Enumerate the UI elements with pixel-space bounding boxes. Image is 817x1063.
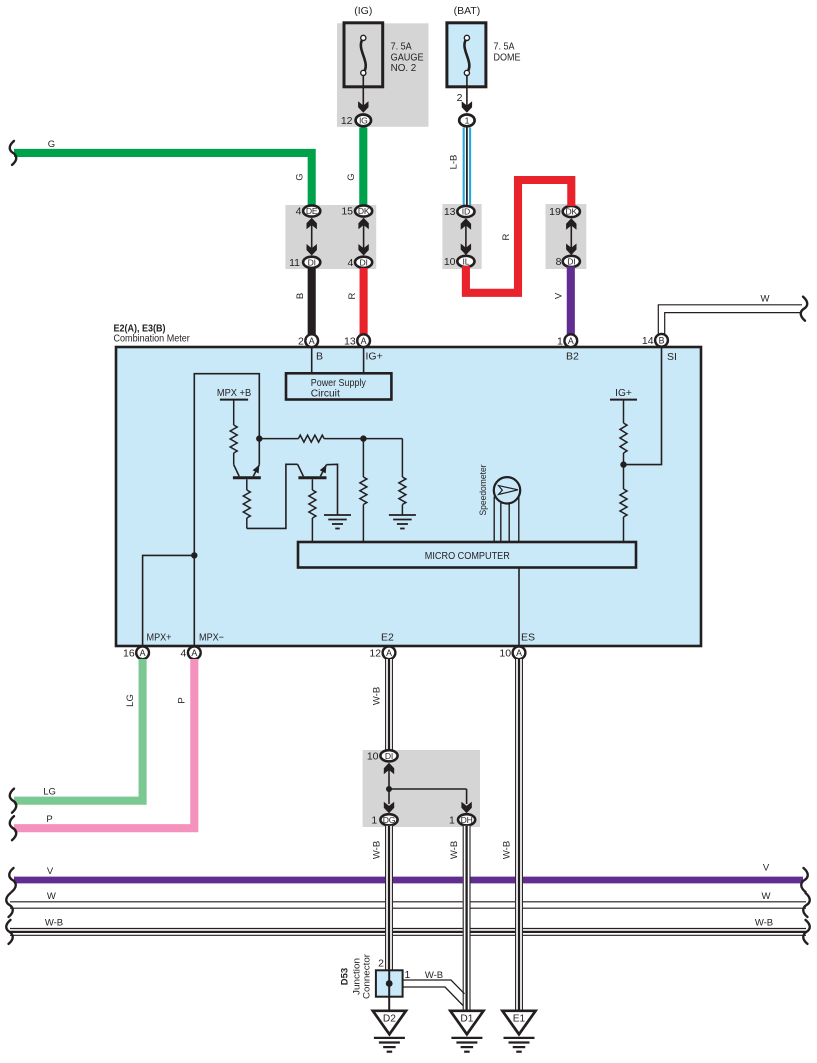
svg-text:DH: DH [461, 815, 473, 825]
svg-text:DI: DI [308, 257, 316, 267]
wire MPX- from pin 4 up to node [194, 374, 259, 646]
meter pin 2 A [305, 334, 318, 347]
svg-text:NO. 2: NO. 2 [391, 63, 417, 74]
junction dot MPX [191, 552, 197, 558]
wire V (violet) DI to meter pin 1 [567, 267, 575, 337]
meter pin 16 A MPX+ [136, 646, 149, 659]
node junction dot IG+ [620, 461, 626, 467]
svg-text:GAUGE: GAUGE [391, 52, 424, 63]
meter pin 12 A E2 [383, 646, 396, 659]
svg-text:15: 15 [341, 206, 353, 218]
junction dot DI-DG-DH [386, 786, 392, 792]
wire ES from micro computer to pin 10 [518, 568, 520, 647]
svg-text:ID: ID [462, 207, 470, 217]
ground (R5) [389, 514, 416, 516]
svg-text:1: 1 [405, 969, 411, 981]
connector 4 DI [355, 257, 372, 268]
connector 19 DK [563, 206, 580, 217]
svg-text:W-B: W-B [755, 918, 773, 929]
svg-text:D1: D1 [460, 1014, 473, 1025]
svg-text:V: V [47, 866, 54, 877]
power supply circuit box [286, 373, 391, 399]
svg-text:7. 5A: 7. 5A [391, 42, 412, 53]
gray background block around connectors DK/DI (right) [546, 204, 587, 269]
wire G (green) from fuse IG to DK [359, 128, 367, 206]
svg-text:DI: DI [567, 257, 575, 267]
svg-text:A: A [568, 336, 574, 346]
svg-text:B: B [316, 351, 323, 363]
wire pin2 to power supply circuit [311, 347, 313, 373]
speedometer gauge [494, 477, 520, 503]
double arrow DK-DI [363, 221, 365, 253]
speedometer wires to micro computer [493, 497, 495, 543]
svg-text:Circuit: Circuit [311, 388, 340, 399]
svg-text:IG+: IG+ [615, 388, 632, 399]
svg-text:10: 10 [444, 256, 456, 268]
wire LG (light green) from pin 16 [14, 659, 143, 801]
bus wire W (white) [10, 901, 806, 903]
wire fuse BAT to connector 1, pin 2 [466, 76, 468, 109]
svg-text:1: 1 [557, 335, 563, 347]
double arrow DE-DI [311, 221, 313, 253]
meter pin 10 A ES [513, 646, 526, 659]
fuse (BAT) 7.5A DOME [447, 23, 486, 87]
svg-text:MICRO COMPUTER: MICRO COMPUTER [425, 551, 510, 562]
svg-text:MPX +B: MPX +B [217, 388, 252, 399]
svg-text:Power Supply: Power Supply [311, 378, 367, 389]
svg-text:IG: IG [359, 116, 368, 126]
resistor R5 to ground [363, 438, 402, 440]
svg-text:A: A [140, 648, 146, 658]
wire R (red) DI to meter pin 13 [360, 268, 368, 336]
svg-text:DOME: DOME [494, 52, 521, 63]
meter pin 13 A [357, 334, 370, 347]
svg-text:14: 14 [642, 335, 654, 347]
connector 10 IL [457, 256, 474, 267]
wire W (white) from right to meter pin 14 [658, 305, 802, 341]
svg-text:A: A [309, 336, 315, 346]
svg-text:A: A [516, 648, 522, 658]
wire W-B from D53 pin 1 to D1 wire [403, 980, 465, 994]
wire W-B from DH to ground D1 [463, 826, 471, 1010]
svg-text:W-B: W-B [372, 841, 383, 859]
connector 1 DH [458, 814, 475, 825]
connector 1 DG [380, 814, 397, 825]
svg-text:A: A [361, 336, 367, 346]
svg-text:13: 13 [444, 206, 456, 218]
svg-text:11: 11 [289, 257, 300, 269]
resistor R6 under Q2 to micro computer [311, 479, 313, 490]
ground D1 [450, 1011, 483, 1035]
wire G (green) from left [14, 153, 312, 205]
svg-text:W: W [47, 891, 56, 902]
wire W-B from DG to junction connector D53 [385, 826, 393, 971]
meter pin 4 A MPX- [188, 646, 201, 659]
svg-text:E2: E2 [381, 632, 394, 644]
ground D2 [373, 1011, 406, 1035]
svg-text:B: B [295, 293, 306, 299]
svg-text:R: R [347, 292, 358, 299]
svg-text:DK: DK [566, 207, 578, 217]
resistor R1 [233, 400, 235, 425]
connector 10 DI (bottom) [380, 750, 397, 761]
wire MPX+ from pin 16 to MPX- line [143, 555, 195, 646]
wire junction to DH [389, 788, 467, 790]
connector 4 DE [303, 205, 320, 216]
wire R (red) from IL to DK [466, 180, 571, 293]
connector 8 DI [563, 256, 580, 267]
resistor R3 (horizontal) [259, 438, 298, 440]
gray background block around connectors ID/IL [442, 204, 481, 269]
wire W-B from pin 12 to DI [385, 659, 393, 750]
svg-text:W-B: W-B [502, 841, 513, 859]
svg-text:DE: DE [306, 206, 318, 216]
resistor R8 to micro computer [623, 465, 625, 489]
svg-text:19: 19 [549, 206, 561, 218]
node junction dot 2 [360, 435, 366, 441]
ground E1 [502, 1011, 535, 1035]
svg-text:A: A [191, 648, 197, 658]
svg-text:(BAT): (BAT) [454, 5, 481, 17]
svg-text:1: 1 [465, 116, 470, 126]
wire node to SI pin 14 [624, 347, 662, 465]
svg-text:W-B: W-B [449, 841, 460, 859]
resistor R7 [623, 400, 625, 423]
svg-text:DI: DI [385, 751, 393, 761]
svg-text:4: 4 [347, 257, 353, 269]
svg-text:W-B: W-B [425, 970, 443, 981]
svg-text:4: 4 [181, 647, 187, 659]
svg-text:10: 10 [499, 647, 511, 659]
bus wire W-B (white-black) [10, 928, 806, 930]
svg-text:10: 10 [367, 750, 379, 762]
svg-text:V: V [763, 863, 770, 874]
svg-text:SI: SI [667, 351, 677, 363]
transistor Q1 [233, 476, 261, 479]
connector 11 DI [303, 257, 320, 268]
junction connector D53 [376, 970, 403, 996]
combination meter box E2(A) E3(B) [116, 347, 701, 646]
connector 12 IG [356, 115, 371, 127]
arrow up into DI [384, 763, 394, 775]
svg-text:12: 12 [369, 647, 381, 659]
connector 15 DK [355, 205, 372, 216]
svg-text:G: G [346, 173, 357, 180]
svg-text:2: 2 [298, 335, 304, 347]
connector 13 ID [457, 206, 474, 217]
svg-text:MPX−: MPX− [199, 633, 224, 644]
resistor R4 to micro computer [362, 439, 364, 477]
micro computer box [298, 542, 636, 568]
svg-text:1: 1 [371, 814, 377, 826]
svg-text:DK: DK [358, 206, 370, 216]
wire R2 to Q2 base [247, 464, 298, 528]
svg-text:ES: ES [521, 632, 535, 644]
svg-text:P: P [177, 697, 188, 703]
svg-text:Connector: Connector [362, 954, 373, 999]
svg-text:16: 16 [123, 647, 135, 659]
svg-text:13: 13 [344, 335, 356, 347]
svg-text:L-B: L-B [449, 155, 460, 170]
svg-text:D53: D53 [340, 968, 351, 985]
gray background block around IG fuse [337, 23, 429, 127]
svg-text:7. 5A: 7. 5A [494, 42, 515, 53]
svg-text:D2: D2 [383, 1014, 396, 1025]
wire W-B from pin 10 ES to ground E1 [515, 659, 523, 1010]
svg-text:V: V [554, 292, 565, 299]
svg-text:LG: LG [125, 694, 136, 707]
svg-text:Speedometer: Speedometer [478, 465, 489, 516]
wire pin13 to power supply circuit [363, 347, 365, 373]
svg-text:12: 12 [341, 115, 353, 127]
connector 1 (BAT) [459, 115, 474, 127]
gray background block around connectors DE/DI and DK/DI [285, 205, 376, 269]
node junction dot [256, 435, 262, 441]
meter pin 1 A [564, 334, 577, 347]
svg-text:LG: LG [43, 787, 56, 798]
arrow down into DH [466, 789, 468, 804]
wire B (black) DI to meter pin 2 [308, 268, 316, 336]
svg-text:P: P [46, 814, 52, 825]
fuse (IG) 7.5A GAUGE NO.2 [344, 23, 383, 87]
gray background block around connectors DI/DG/DH (bottom) [363, 750, 480, 827]
svg-text:G: G [48, 139, 55, 150]
ground (Q2 emitter) [324, 514, 351, 516]
svg-text:B2: B2 [566, 351, 579, 363]
meter pin 14 B [655, 334, 668, 347]
svg-text:W: W [762, 891, 771, 902]
svg-text:E1: E1 [513, 1014, 526, 1025]
svg-text:DI: DI [359, 257, 367, 267]
wire D53 to ground D2 [388, 987, 390, 1011]
svg-text:W: W [761, 294, 770, 305]
svg-text:(IG): (IG) [354, 5, 372, 17]
svg-text:DG: DG [383, 815, 396, 825]
double arrow DK-DI (right) [570, 221, 572, 252]
svg-text:A: A [386, 648, 392, 658]
wire P (pink) from pin 4 [14, 659, 194, 828]
wire fuse IG to connector IG [362, 76, 364, 109]
svg-text:G: G [295, 173, 306, 180]
svg-text:2: 2 [378, 958, 384, 970]
bus wire V (violet) [14, 877, 803, 884]
wire Q2 emitter to ground [326, 464, 337, 515]
svg-text:4: 4 [296, 206, 302, 218]
svg-text:IG+: IG+ [366, 351, 383, 363]
svg-text:MPX+: MPX+ [147, 633, 172, 644]
svg-text:R: R [501, 233, 512, 240]
arrow down into DG [388, 789, 390, 804]
svg-text:W-B: W-B [372, 687, 383, 705]
wire L-B (light blue/black) from connector 1 to ID [463, 128, 471, 206]
svg-text:IL: IL [463, 257, 470, 267]
wire Q1 emitter to node [258, 439, 260, 465]
svg-text:W-B: W-B [45, 918, 63, 929]
resistor R2 under Q1 [246, 479, 248, 490]
svg-text:1: 1 [449, 814, 455, 826]
transistor Q2 [298, 476, 326, 479]
svg-text:B: B [659, 336, 665, 346]
double arrow ID-IL [465, 221, 467, 252]
svg-text:Combination Meter: Combination Meter [114, 334, 191, 345]
svg-text:8: 8 [556, 256, 562, 268]
